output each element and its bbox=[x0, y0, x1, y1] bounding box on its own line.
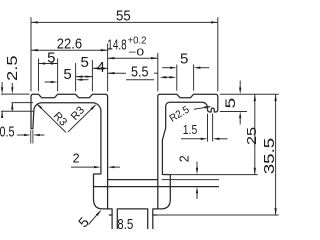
svg-text:14.8: 14.8 bbox=[107, 36, 126, 53]
svg-text:5: 5 bbox=[63, 66, 71, 83]
svg-text:5: 5 bbox=[47, 50, 55, 67]
svg-text:55: 55 bbox=[116, 7, 131, 24]
svg-text:5: 5 bbox=[180, 51, 188, 68]
svg-text:22.6: 22.6 bbox=[57, 36, 82, 53]
svg-text:5: 5 bbox=[81, 54, 89, 71]
svg-text:25: 25 bbox=[244, 127, 259, 145]
svg-text:5: 5 bbox=[75, 214, 92, 229]
svg-text:8.5: 8.5 bbox=[117, 216, 133, 229]
svg-text:5: 5 bbox=[223, 98, 238, 109]
svg-text:+0.2: +0.2 bbox=[128, 34, 147, 46]
svg-text:R3: R3 bbox=[69, 104, 87, 122]
svg-text:R2.5: R2.5 bbox=[167, 104, 191, 125]
svg-text:4: 4 bbox=[97, 59, 105, 76]
svg-text:35.5: 35.5 bbox=[261, 138, 278, 175]
svg-text:0.5: 0.5 bbox=[0, 123, 15, 140]
svg-text:−0: −0 bbox=[128, 47, 144, 59]
svg-text:2: 2 bbox=[178, 155, 192, 162]
svg-text:1.5: 1.5 bbox=[183, 123, 198, 137]
svg-text:5.5: 5.5 bbox=[131, 63, 149, 80]
svg-text:R3: R3 bbox=[51, 110, 69, 128]
svg-text:2: 2 bbox=[73, 151, 80, 165]
svg-text:2.5: 2.5 bbox=[4, 55, 21, 81]
